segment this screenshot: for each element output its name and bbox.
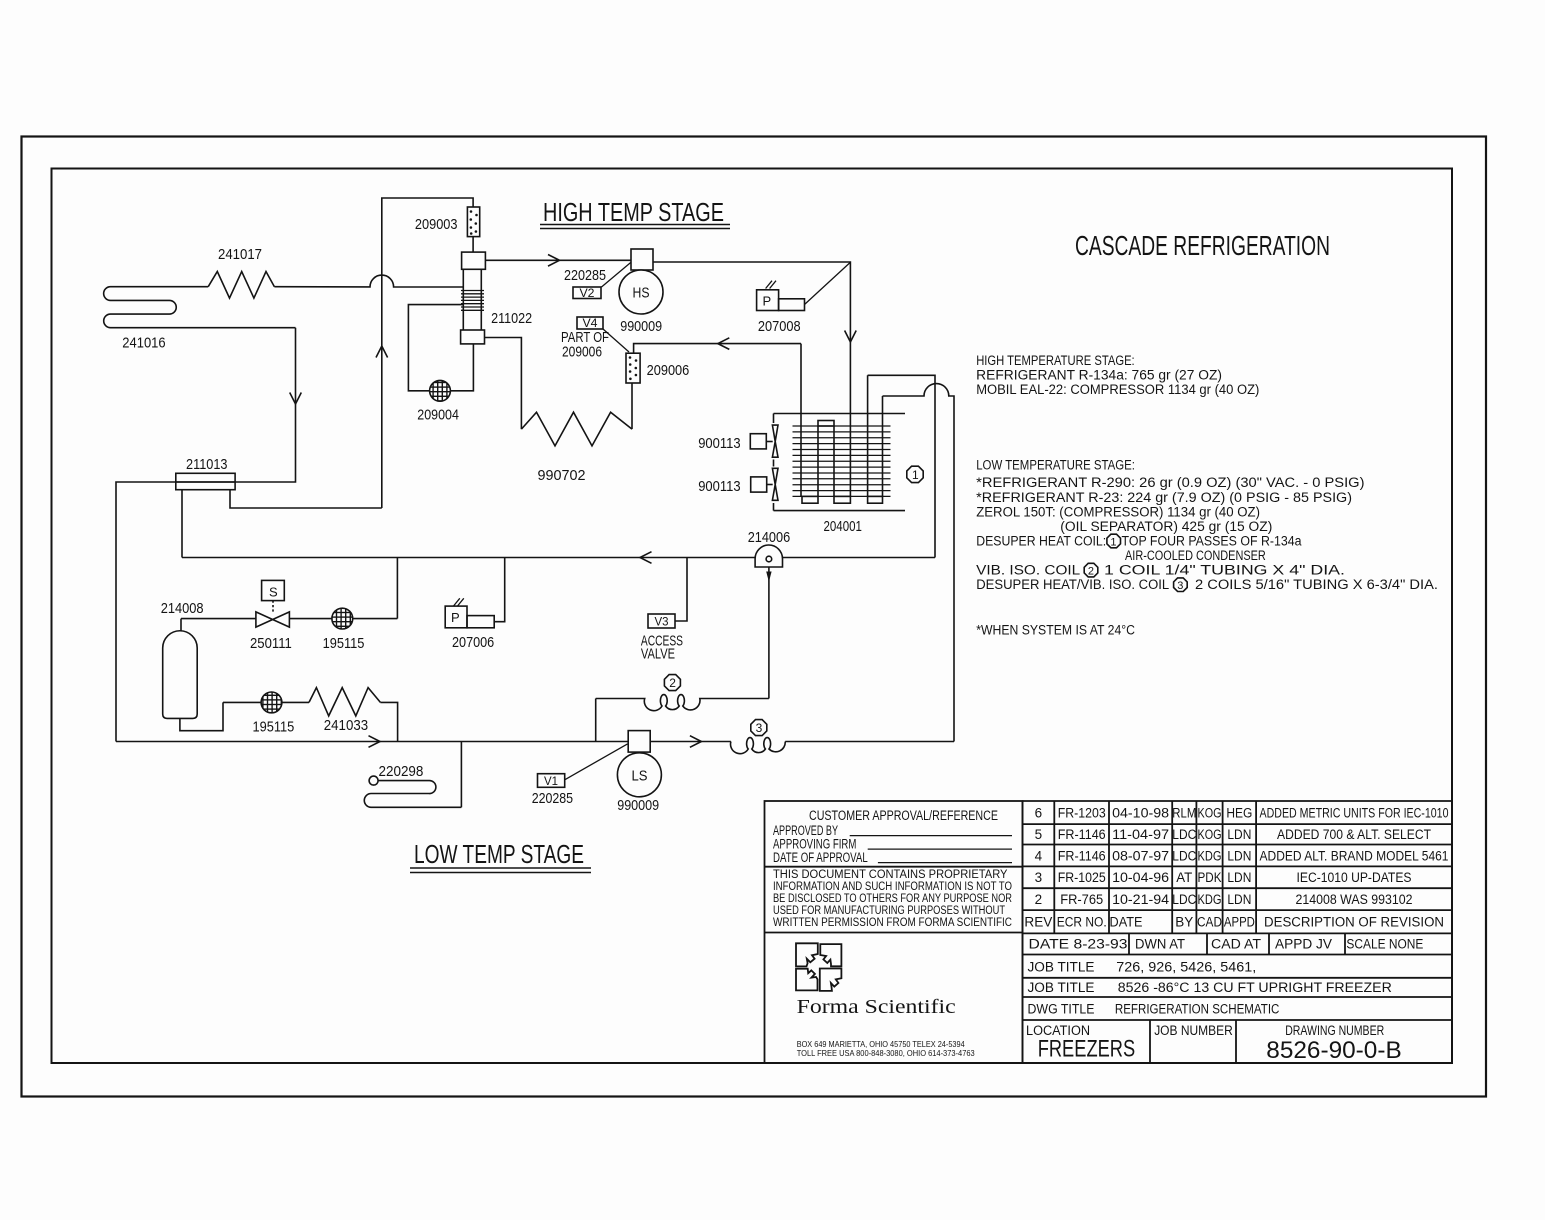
evaporator coil 220298 [364,781,461,808]
svg-text:LOW TEMPERATURE STAGE:: LOW TEMPERATURE STAGE: [976,457,1135,472]
svg-text:LDC: LDC [1172,849,1196,864]
arrow left on suction return [718,338,730,350]
note octagon 3 [1174,578,1188,592]
svg-text:10-04-96: 10-04-96 [1112,870,1169,885]
suction return wire to 209006 [634,344,801,354]
svg-text:AT: AT [1176,870,1192,885]
svg-text:220298: 220298 [379,763,424,780]
wire 214006 down to coil 2 line [768,567,770,699]
arrow down on drop wire [290,393,302,405]
svg-text:WRITTEN PERMISSION FROM FORMA: WRITTEN PERMISSION FROM FORMA SCIENTIFIC [773,917,1012,929]
svg-text:JOB TITLE: JOB TITLE [1028,960,1095,975]
svg-text:*WHEN SYSTEM IS AT 24°C: *WHEN SYSTEM IS AT 24°C [976,623,1135,638]
evaporator coil 241016 [104,287,296,328]
valve tag V2 box [573,287,601,299]
svg-text:214008: 214008 [161,600,204,617]
wire HX bottom to zigzag [485,338,522,430]
svg-text:ZEROL 150T: (COMPRESSOR) 1134: ZEROL 150T: (COMPRESSOR) 1134 gr (40 OZ) [976,504,1260,519]
svg-text:FR-1025: FR-1025 [1058,870,1106,885]
svg-text:HIGH TEMPERATURE STAGE:: HIGH TEMPERATURE STAGE: [976,353,1134,368]
arrow left on liquid line [640,552,652,564]
riser to 209003 with up arrow [382,198,473,508]
svg-text:DATE 8-23-93: DATE 8-23-93 [1029,937,1128,952]
inner border frame [52,169,1453,1064]
svg-text:214006: 214006 [748,529,791,546]
svg-text:LDN: LDN [1227,849,1251,864]
approval underlines [850,836,1012,863]
svg-text:LS: LS [632,768,648,785]
svg-text:11-04-97: 11-04-97 [1112,827,1169,842]
coil tag octagon 3 [751,720,767,736]
svg-text:ADDED ALT. BRAND MODEL 5461: ADDED ALT. BRAND MODEL 5461 [1260,849,1449,864]
svg-text:209003: 209003 [415,216,458,233]
svg-text:BE DISCLOSED TO OTHERS FOR ANY: BE DISCLOSED TO OTHERS FOR ANY PURPOSE N… [773,893,1012,905]
strainer 209003 [467,207,479,237]
proprietary statement [773,869,1012,929]
svg-text:JOB NUMBER: JOB NUMBER [1154,1023,1233,1038]
wire 209006 to zigzag [631,383,633,429]
wire V3 to liquid line [675,558,687,622]
svg-text:241033: 241033 [324,717,368,734]
arrow down on HS discharge [845,331,857,343]
svg-text:REFRIGERANT R-134a: 765 gr (2: REFRIGERANT R-134a: 765 gr (27 OZ) [976,368,1222,383]
valve tag V4 box [577,317,603,329]
arrow down below 214006 [766,572,771,583]
svg-text:990009: 990009 [620,318,662,335]
revision rows text [1024,806,1448,930]
svg-text:TOP FOUR PASSES OF R-134a: TOP FOUR PASSES OF R-134a [1122,534,1302,549]
svg-text:209006: 209006 [647,362,690,379]
svg-text:4: 4 [1035,849,1043,864]
svg-text:P: P [451,610,460,625]
title block customer approval box [765,801,1023,1063]
condenser tube risers [801,344,883,497]
revision table grid [1023,801,1453,1020]
svg-text:HEG: HEG [1226,806,1252,821]
coil tag octagon 2 [664,675,680,691]
svg-text:FR-765: FR-765 [1060,892,1103,907]
svg-text:REV: REV [1024,915,1052,930]
svg-text:DWG TITLE: DWG TITLE [1028,1002,1095,1017]
svg-text:6: 6 [1035,806,1043,821]
wire receiver bottom out [180,702,223,730]
svg-text:HS: HS [633,285,650,302]
liquid line main horizontal [182,557,935,559]
LS discharge line [650,741,954,743]
svg-text:Forma Scientific: Forma Scientific [797,996,956,1018]
svg-text:209004: 209004 [417,407,459,424]
wire receiver top nozzle [180,619,182,631]
svg-text:DATE OF APPROVAL: DATE OF APPROVAL [773,850,868,865]
HX discharge wire to HS compressor [485,259,631,261]
svg-text:DESUPER HEAT/VIB. ISO. COIL: DESUPER HEAT/VIB. ISO. COIL [976,577,1169,592]
svg-text:DESCRIPTION OF REVISION: DESCRIPTION OF REVISION [1264,915,1444,930]
svg-text:220285: 220285 [564,267,606,284]
svg-text:2 COILS 5/16" TUBING X 6-3/4": 2 COILS 5/16" TUBING X 6-3/4" DIA. [1195,577,1438,592]
svg-text:2: 2 [1088,566,1094,578]
wire 241017 to HX with hop over vertical [274,275,463,287]
svg-text:ECR NO.: ECR NO. [1057,915,1107,930]
LS desuper line from tube 882.5 with hop [883,384,955,742]
svg-text:KOG: KOG [1198,806,1222,821]
svg-text:04-10-98: 04-10-98 [1112,806,1169,821]
underline HIGH TEMP STAGE [540,225,730,229]
cap tube 241033 zigzag [309,688,380,716]
condenser left bracket segments [773,414,775,511]
wire 211013 bottom-left port down [181,490,183,558]
svg-text:8526 -86°C 13 CU FT UPRIGHT F: 8526 -86°C 13 CU FT UPRIGHT FREEZER [1118,980,1392,995]
svg-text:LOW TEMP STAGE: LOW TEMP STAGE [414,839,584,869]
wire 241033 down to suction main [380,702,397,741]
svg-text:KDG: KDG [1198,849,1222,864]
leader V4 to 209006 [603,329,629,352]
underline LOW TEMP STAGE [410,868,591,873]
svg-text:SCALE NONE: SCALE NONE [1346,937,1423,952]
svg-text:207006: 207006 [452,634,494,651]
wire 211013 bottom-right port to riser [230,490,382,508]
arrow up on riser [376,346,388,358]
svg-text:2: 2 [1035,892,1043,907]
coil 2 line and loops [596,695,769,711]
SECTION: righttext [976,353,1438,638]
svg-text:V3: V3 [655,615,669,629]
svg-text:CAD AT: CAD AT [1211,937,1261,952]
svg-text:V2: V2 [580,286,595,300]
svg-text:KDG: KDG [1198,892,1222,907]
strainer 209004 [430,380,451,401]
evaporator 220298 riser [460,742,462,808]
oil return loop wire [408,305,473,391]
leader V1 to LS [565,744,628,780]
svg-text:241016: 241016 [122,335,165,352]
svg-text:DATE: DATE [1110,915,1143,930]
condenser 204001 frame rails [774,414,906,511]
drier 209006 [626,353,640,383]
Forma Scientific logo [796,943,841,991]
title rows text [1026,937,1423,1065]
coil 2 branch riser [595,699,597,742]
svg-text:BOX 649 MARIETTA, OHIO 45750 T: BOX 649 MARIETTA, OHIO 45750 TELEX 24-53… [797,1040,966,1049]
arrow right on suction main [369,736,381,748]
svg-text:08-07-97: 08-07-97 [1112,849,1169,864]
leader V2 to HS [602,263,631,288]
svg-text:IEC-1010 UP-DATES: IEC-1010 UP-DATES [1297,870,1412,885]
suction main line left [116,741,628,743]
svg-text:DWN AT: DWN AT [1135,937,1185,952]
svg-text:726, 926, 5426, 5461,: 726, 926, 5426, 5461, [1116,960,1256,975]
svg-text:FR-1146: FR-1146 [1058,827,1106,842]
label PART OF 209006 [561,329,609,361]
svg-text:209006: 209006 [562,344,602,361]
svg-text:P: P [763,294,772,309]
svg-text:PDK: PDK [1198,870,1222,885]
svg-text:3: 3 [756,721,763,735]
svg-text:5: 5 [1035,827,1043,842]
svg-text:LDN: LDN [1227,892,1251,907]
svg-text:214008 WAS 993102: 214008 WAS 993102 [1296,892,1413,907]
pressure transducer 207008 [757,281,805,311]
svg-text:10-21-94: 10-21-94 [1112,892,1170,907]
arrow right on discharge [548,255,560,267]
svg-text:990009: 990009 [617,797,659,814]
svg-text:APPD JV: APPD JV [1275,937,1332,952]
desuperheat zigzag 990702 [521,412,632,446]
svg-text:DRAWING NUMBER: DRAWING NUMBER [1285,1023,1384,1038]
svg-text:211013: 211013 [186,456,228,473]
heat exchanger 211022 tube [463,269,481,330]
strainer 195115 upper [332,608,353,629]
coil 3 loops [731,738,786,754]
svg-text:JOB TITLE: JOB TITLE [1028,980,1095,995]
svg-text:195115: 195115 [253,719,295,736]
wire to strainer 195115 lower [223,701,309,703]
SECTION: titleblock [765,801,1453,1063]
svg-text:MOBIL EAL-22: COMPRESSOR 1134: MOBIL EAL-22: COMPRESSOR 1134 gr (40 OZ) [976,382,1259,397]
svg-text:CAD: CAD [1197,915,1222,930]
svg-text:204001: 204001 [824,518,862,535]
note octagon 1 [1107,534,1121,548]
svg-text:1 COIL 1/4" TUBING X 4" DIA.: 1 COIL 1/4" TUBING X 4" DIA. [1104,563,1345,578]
svg-text:2: 2 [669,676,676,690]
heat exchanger 211022 top header [462,252,486,269]
condenser bottom U-bends [802,496,818,503]
HS compressor 990009 [619,249,663,314]
svg-text:HIGH TEMP STAGE: HIGH TEMP STAGE [543,197,724,227]
LS compressor 990009 [617,731,661,797]
SECTION: titles [414,197,1330,869]
condenser top U-bend [818,421,834,427]
coil tag octagon 1 [907,466,923,482]
svg-text:CUSTOMER APPROVAL/REFERENCE: CUSTOMER APPROVAL/REFERENCE [809,808,998,823]
wire 207006 to liquid line [494,558,505,622]
svg-text:1: 1 [912,468,919,482]
svg-text:211022: 211022 [491,310,532,327]
svg-text:990702: 990702 [538,467,586,484]
svg-text:900113: 900113 [698,478,740,495]
wire 209003 to HX top [472,237,474,253]
fan motor 900113 top [750,425,778,457]
heat exchanger 211022 ribs [461,291,484,311]
pressure transducer 207006 [445,598,494,628]
svg-text:VIB. ISO. COIL: VIB. ISO. COIL [976,563,1081,578]
svg-text:TOLL FREE USA 800-848-3080, OH: TOLL FREE USA 800-848-3080, OHIO 614-373… [797,1049,976,1058]
condenser fins [793,426,891,496]
receiver 214008 [163,631,198,719]
solenoid valve 250111 bowtie [256,612,290,627]
strainer 195115 lower [261,692,282,713]
svg-text:S: S [269,585,278,600]
svg-text:CASCADE REFRIGERATION: CASCADE REFRIGERATION [1075,230,1330,261]
heat exchanger 211022 bottom header [461,330,485,344]
svg-text:KOG: KOG [1198,827,1222,842]
svg-text:LDN: LDN [1227,870,1251,885]
svg-text:AIR-COOLED CONDENSER: AIR-COOLED CONDENSER [1125,548,1266,563]
svg-text:3: 3 [1035,870,1043,885]
svg-text:3: 3 [1177,580,1183,592]
svg-text:VALVE: VALVE [641,646,675,663]
svg-text:1: 1 [1110,537,1116,549]
svg-text:LDC: LDC [1172,827,1196,842]
svg-text:241017: 241017 [218,246,262,263]
outer border frame [22,137,1487,1097]
svg-text:INFORMATION AND SUCH INFORMATI: INFORMATION AND SUCH INFORMATION IS NOT … [773,881,1012,893]
svg-text:LDC: LDC [1172,892,1196,907]
wire 211013 left to border-down [116,482,235,742]
svg-text:USED FOR MANUFACTURING PURPOSE: USED FOR MANUFACTURING PURPOSES WITHOUT [773,905,1005,917]
wire drop from 241016 to 211013 [176,328,296,482]
arrow right on LS discharge [690,736,702,748]
svg-text:REFRIGERATION SCHEMATIC: REFRIGERATION SCHEMATIC [1115,1002,1280,1017]
note octagon 2 [1084,563,1098,577]
svg-text:FR-1146: FR-1146 [1058,849,1106,864]
branch liquid line down to expansion line [396,558,398,619]
svg-text:THIS DOCUMENT CONTAINS PROPRIE: THIS DOCUMENT CONTAINS PROPRIETARY [773,869,1008,881]
drier 211013 [176,473,235,489]
svg-text:900113: 900113 [698,435,740,452]
svg-text:FR-1203: FR-1203 [1058,806,1106,821]
svg-text:ADDED METRIC UNITS FOR IEC-101: ADDED METRIC UNITS FOR IEC-1010 [1260,806,1449,821]
valve tag V3 box [648,614,675,628]
expansion line wire [181,618,397,620]
address lines [797,1040,976,1058]
solenoid S box [262,580,285,612]
svg-text:207008: 207008 [758,318,801,335]
access port 214006 [755,545,782,567]
svg-text:BY: BY [1175,915,1193,930]
cap circle 220298 [369,776,378,785]
svg-text:220285: 220285 [532,790,573,807]
svg-text:APPD: APPD [1224,915,1255,930]
svg-text:*REFRIGERANT R-290: 26 gr (0.9: *REFRIGERANT R-290: 26 gr (0.9 OZ) (30" … [976,475,1364,490]
liquid line from tube 867.6 [868,375,935,557]
svg-text:195115: 195115 [323,635,365,652]
svg-text:250111: 250111 [250,635,292,652]
HS discharge wire to condenser [653,262,850,496]
svg-text:DESUPER HEAT COIL:: DESUPER HEAT COIL: [976,534,1106,549]
svg-text:V4: V4 [583,316,598,330]
svg-text:RLM: RLM [1172,806,1196,821]
leader 207008 to discharge corner [805,263,851,305]
svg-text:(OIL SEPARATOR) 425 gr (15 OZ): (OIL SEPARATOR) 425 gr (15 OZ) [1060,519,1272,534]
svg-text:FREEZERS: FREEZERS [1038,1036,1136,1063]
svg-text:V1: V1 [544,774,558,788]
svg-text:*REFRIGERANT R-23: 224 gr (7.9: *REFRIGERANT R-23: 224 gr (7.9 OZ) (0 PS… [976,490,1352,505]
svg-text:LDN: LDN [1227,827,1251,842]
svg-text:ADDED 700 & ALT. SELECT: ADDED 700 & ALT. SELECT [1277,827,1431,842]
fan motor 900113 bottom [751,468,778,500]
resistor 241017 (cap tube) [208,272,274,299]
label ACCESS VALVE [641,633,683,663]
valve tag V1 box [538,774,565,788]
svg-text:8526-90-0-B: 8526-90-0-B [1266,1037,1401,1064]
